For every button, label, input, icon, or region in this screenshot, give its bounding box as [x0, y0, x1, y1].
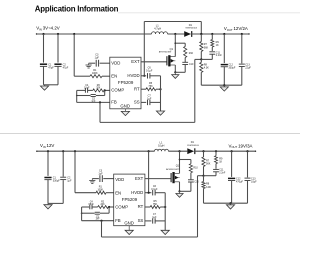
- svg-text:1µF: 1µF: [152, 216, 157, 219]
- svg-text:HVDD: HVDD: [131, 190, 143, 195]
- wire VIN rail left segment (top): [36, 33, 152, 34]
- wire input caps join (bottom): [48, 202, 63, 204]
- svg-text:47µF: 47µF: [63, 66, 69, 69]
- svg-text:75K: 75K: [153, 203, 158, 206]
- svg-text:100K: 100K: [92, 72, 98, 75]
- svg-text:SVM7045LB: SVM7045LB: [187, 145, 199, 147]
- svg-text:AP09962GMT: AP09962GMT: [159, 51, 172, 54]
- ground IC GND (bottom): [125, 226, 133, 235]
- inductor L1 (top): [152, 32, 168, 34]
- capacitor C4 (top comp): [85, 88, 92, 93]
- transistor Q1 label (bottom): [166, 165, 180, 171]
- svg-text:3.9K: 3.9K: [206, 186, 211, 189]
- svg-text:FB: FB: [111, 100, 117, 105]
- svg-text:SVM7045LB: SVM7045LB: [185, 28, 197, 30]
- wire right ground bus (bottom): [164, 193, 166, 231]
- wire SS (top): [141, 101, 146, 103]
- svg-text:RT: RT: [134, 86, 140, 91]
- svg-text:470µF: 470µF: [236, 181, 243, 184]
- capacitor C10 label (bottom): [194, 182, 199, 184]
- resistor R9 feedforward (bottom): [215, 150, 218, 169]
- node VOUT 19V/3A label (bottom): [229, 143, 253, 149]
- capacitor C13 output (top): [239, 33, 245, 85]
- pin HVDD label (bottom): [131, 190, 143, 195]
- ground C3 earth symbol (top): [86, 63, 92, 68]
- node VOUT 12V/2A label (top): [224, 26, 248, 32]
- wire COMP line (top): [77, 89, 85, 91]
- svg-text:75K: 75K: [148, 85, 153, 88]
- capacitor C12 label 330uF (top): [228, 64, 235, 70]
- svg-text:COMP: COMP: [111, 88, 124, 93]
- svg-text:RT: RT: [138, 204, 144, 209]
- resistor R7 label 56K (bottom): [206, 159, 211, 165]
- wire VOUT rail (top): [191, 33, 250, 34]
- resistor R1 label 100K (top): [92, 69, 98, 75]
- resistor R10 snubber (bottom): [189, 164, 192, 180]
- svg-text:FP5209: FP5209: [122, 197, 138, 202]
- svg-text:0.1µF: 0.1µF: [151, 188, 158, 191]
- ground input caps (bottom): [44, 203, 52, 209]
- wire FB feedback route (bottom): [102, 176, 204, 237]
- wire EXT to gate (bottom): [145, 178, 171, 180]
- resistor R1 (top EN): [90, 75, 110, 78]
- resistor R2 comp (bottom): [98, 206, 114, 209]
- ground right bus (top): [156, 111, 164, 115]
- pin GND label (top): [120, 104, 130, 109]
- capacitor C7 label 1uF (bottom): [152, 213, 157, 219]
- capacitor C5 (top comp): [91, 95, 96, 97]
- ground IC GND pin (top): [121, 109, 129, 116]
- pin RT label (top): [134, 86, 140, 91]
- capacitor C3 VDD bypass (bottom): [92, 175, 113, 182]
- wire HVDD feed from VIN rail (bottom): [148, 150, 150, 194]
- ground output (bottom): [226, 203, 234, 209]
- svg-text:EN: EN: [115, 190, 121, 195]
- capacitor C6 label 0.1uF (top): [146, 67, 153, 73]
- diode D1 label (top): [185, 24, 197, 30]
- capacitor C11 label 2.2nF (bottom): [219, 170, 226, 175]
- faint header rule: [118, 12, 300, 14]
- transistor Q1 MOSFET (bottom): [171, 172, 179, 183]
- svg-text:2.2nF: 2.2nF: [216, 55, 223, 57]
- pin GND label (bottom): [124, 221, 134, 226]
- wire HVDD (bottom): [145, 192, 152, 194]
- svg-text:FB: FB: [115, 218, 121, 223]
- ground C3 earth (bottom): [89, 179, 95, 184]
- svg-text:56K: 56K: [206, 163, 211, 166]
- svg-text:Q1: Q1: [170, 48, 174, 51]
- resistor R1 label 100K (bottom): [97, 186, 103, 192]
- wire EN branch from VIN rail (top): [73, 33, 90, 76]
- svg-text:1µF: 1µF: [147, 97, 152, 100]
- wire Q1 drain (top): [174, 33, 176, 57]
- capacitor C10 snubber (top): [182, 62, 188, 72]
- wire FB line (bottom): [82, 220, 114, 222]
- pin EN label (bottom): [115, 190, 121, 195]
- svg-text:4.3K: 4.3K: [204, 67, 209, 70]
- svg-text:330µF: 330µF: [53, 180, 60, 183]
- separator rule: [0, 132, 300, 134]
- inductor L1 label 10uH (bottom): [158, 141, 164, 148]
- svg-text:EXT: EXT: [131, 59, 140, 64]
- capacitor C2 (top input electrolytic): [54, 33, 61, 85]
- svg-text:GND: GND: [120, 104, 130, 109]
- wire input caps ground join (top): [44, 84, 59, 86]
- svg-text:1µF: 1µF: [98, 173, 103, 176]
- capacitor C4 comp (bottom): [90, 205, 98, 210]
- resistor R2 label 20K (bottom): [101, 202, 106, 206]
- resistor R8 divider lower (bottom): [202, 176, 205, 204]
- wire snubber return (top): [175, 71, 185, 73]
- svg-text:1K: 1K: [216, 44, 219, 47]
- resistor R5 label 75K (top): [148, 82, 153, 88]
- capacitor C4 label (bottom): [89, 202, 95, 206]
- resistor R1 EN (bottom): [96, 191, 114, 194]
- node VIN (top circuit) label: [36, 26, 60, 32]
- wire switch rail to diode (bottom): [168, 150, 187, 152]
- svg-text:R10: R10: [189, 53, 194, 55]
- capacitor C4 label (top): [84, 85, 90, 89]
- page title: [35, 4, 119, 13]
- resistor R6 label 20K (top): [96, 85, 101, 89]
- pin FB label (top): [111, 100, 117, 105]
- resistor R7 divider upper (bottom): [202, 150, 205, 177]
- svg-text:10nF: 10nF: [84, 87, 90, 89]
- svg-text:1K: 1K: [219, 161, 222, 164]
- svg-text:SS: SS: [138, 218, 144, 223]
- wire snubber stub (top): [174, 42, 185, 46]
- transistor Q1 label (top): [159, 48, 174, 54]
- svg-text:C11: C11: [216, 52, 221, 54]
- capacitor C5 label 1nF (bottom): [95, 216, 100, 220]
- svg-text:FP5209: FP5209: [118, 80, 134, 85]
- wire switch rail to diode (top): [168, 33, 185, 35]
- resistor R9 feedforward (top): [211, 33, 214, 51]
- svg-text:AP09962GMT: AP09962GMT: [166, 168, 179, 171]
- svg-text:VDD: VDD: [111, 60, 120, 65]
- wire Q1 source (top): [174, 65, 176, 73]
- svg-text:68nF: 68nF: [89, 204, 95, 206]
- svg-text:4.7µH: 4.7µH: [154, 27, 161, 31]
- svg-text:C11: C11: [219, 170, 224, 172]
- capacitor C2 label 1uF (bottom): [67, 177, 72, 183]
- resistor R6 (top comp): [93, 89, 110, 92]
- wire RT (bottom): [145, 206, 150, 208]
- capacitor C5 comp (bottom): [95, 212, 100, 214]
- capacitor C1 input (bottom): [44, 150, 51, 203]
- IC name label FP5209 (bottom): [122, 197, 138, 202]
- resistor R8 label 4.3K (top): [204, 63, 209, 69]
- svg-text:COMP: COMP: [115, 204, 128, 209]
- svg-text:SS: SS: [134, 99, 140, 104]
- capacitor C2 input (bottom): [60, 150, 66, 203]
- wire HVDD (top): [141, 75, 146, 77]
- wire Q1 drain (bottom): [178, 150, 180, 173]
- pin EXT label (top): [131, 59, 140, 64]
- svg-text:1µF: 1µF: [95, 56, 100, 59]
- capacitor C6 HVDD (top): [148, 73, 161, 78]
- wire comp left vertical (bottom): [81, 207, 83, 221]
- pin SS label (bottom): [138, 218, 144, 223]
- capacitor C6 label 0.1uF (bottom): [151, 185, 158, 191]
- svg-text:C10: C10: [194, 182, 199, 184]
- resistor R5 RT (top): [146, 88, 162, 91]
- resistor R8 label 3.9K (bottom): [206, 183, 211, 189]
- resistor R5 RT (bottom): [150, 206, 166, 209]
- ground output (top): [220, 85, 228, 91]
- svg-text:VDD: VDD: [115, 177, 124, 182]
- svg-text:56K: 56K: [204, 46, 209, 49]
- svg-text:EXT: EXT: [135, 176, 144, 181]
- capacitor C7 SS (top): [148, 100, 161, 105]
- wire RT (top): [141, 88, 146, 90]
- svg-text:100K: 100K: [97, 189, 103, 192]
- svg-text:330µF: 330µF: [228, 67, 235, 70]
- resistor R7 (top divider upper): [200, 33, 203, 61]
- inductor L1 value label 4.7uH (top): [154, 24, 161, 31]
- capacitor C10 snubber (bottom): [188, 180, 194, 192]
- resistor R9 label 1K (top): [216, 41, 220, 47]
- resistor R10 label (top): [189, 53, 194, 55]
- svg-text:GND: GND: [124, 221, 134, 226]
- wire FB feedback route (top): [100, 59, 201, 122]
- svg-text:1µF: 1µF: [67, 180, 72, 183]
- diode D1 (bottom): [187, 148, 195, 154]
- wire SS (bottom): [145, 220, 152, 222]
- wire output ground (top): [201, 84, 242, 86]
- pin RT label (bottom): [138, 204, 144, 209]
- resistor R10 snubber (top): [184, 47, 187, 63]
- capacitor C12 output (bottom): [228, 150, 235, 203]
- svg-text:10µF: 10µF: [251, 181, 257, 184]
- capacitor C1 (top input electrolytic): [40, 33, 47, 85]
- inductor L1 (bottom): [155, 149, 169, 151]
- capacitor C10 label (top): [189, 64, 194, 66]
- capacitor C1 label 330uF (bottom): [53, 177, 60, 183]
- svg-text:20K: 20K: [101, 204, 106, 206]
- capacitor C7 label 1uF (top): [147, 94, 152, 100]
- resistor R7 label 56K (top): [204, 43, 209, 49]
- ground input caps (top): [40, 85, 48, 90]
- svg-text:HVDD: HVDD: [127, 73, 139, 78]
- op-amp U1 FP5209 IC box (bottom): [114, 174, 145, 226]
- wire comp middle line (bottom): [81, 207, 109, 214]
- pin EXT label (bottom): [135, 176, 144, 181]
- capacitor C3 label 1uF (top): [95, 53, 100, 59]
- wire VOUT rail (bottom): [194, 151, 256, 152]
- capacitor C12 label 470uF (bottom): [236, 177, 243, 183]
- capacitor C11 (top): [201, 52, 215, 60]
- capacitor C13 label 22uF (top): [245, 64, 251, 70]
- wire snubber stub (bottom): [179, 159, 191, 164]
- capacitor C13 output (bottom): [245, 150, 251, 203]
- svg-text:20K: 20K: [96, 87, 101, 89]
- capacitor C1 label 47uF (top): [48, 63, 54, 69]
- pin VDD label (bottom): [115, 177, 124, 182]
- capacitor C3 label 1uF (bottom): [98, 170, 103, 176]
- resistor R5 label 75K (bottom): [153, 200, 158, 206]
- wire comp left vertical (top): [76, 90, 78, 102]
- wire COMP line (bottom): [82, 206, 90, 208]
- pin VDD label (top): [111, 60, 120, 65]
- ground Q1 source (bottom): [176, 191, 183, 197]
- wire FB line (top): [77, 101, 110, 103]
- wire output ground (bottom): [204, 202, 248, 204]
- svg-text:0.1µF: 0.1µF: [146, 70, 153, 73]
- capacitor C6 HVDD (bottom): [153, 190, 166, 195]
- resistor R8 (top divider lower): [200, 59, 203, 85]
- wire Q1 source (bottom): [178, 182, 180, 193]
- IC U1 name label FP5209 (top): [118, 80, 134, 85]
- svg-text:22µF: 22µF: [245, 67, 251, 70]
- diode D1 label (bottom): [187, 141, 199, 147]
- pin SS label (top): [134, 99, 140, 104]
- wire comp middle line (top): [76, 90, 105, 96]
- resistor R9 label 1K (bottom): [219, 157, 223, 163]
- svg-text:2.2nF: 2.2nF: [219, 172, 226, 174]
- pin FB label (bottom): [115, 218, 121, 223]
- ground Q1 source (top): [172, 72, 179, 78]
- capacitor C13 label 10uF (bottom): [251, 177, 257, 183]
- svg-text:10µH: 10µH: [158, 144, 164, 148]
- ground right bus (bottom): [161, 230, 169, 234]
- wire VIN rail (bottom): [36, 151, 154, 152]
- capacitor C12 output (top): [221, 33, 228, 85]
- wire HVDD-to-VOUT bridge over L1 and D1 (top): [143, 22, 202, 77]
- svg-text:VIN 12V: VIN 12V: [40, 143, 54, 149]
- node VIN 12V label (bottom): [40, 143, 54, 149]
- pin COMP label (bottom): [115, 204, 128, 209]
- svg-text:Application Information: Application Information: [35, 4, 119, 13]
- pin COMP label (top): [111, 88, 124, 93]
- wire EN branch (bottom): [74, 150, 96, 193]
- svg-text:C10: C10: [189, 64, 194, 66]
- wire EXT to gate (top): [141, 61, 167, 63]
- capacitor C5 label 1nF (top): [91, 99, 96, 103]
- transistor Q1 MOSFET (top): [167, 55, 175, 66]
- capacitor C3 VDD bypass (top): [89, 60, 110, 67]
- svg-text:EN: EN: [111, 73, 117, 78]
- capacitor C7 SS (bottom): [153, 218, 166, 223]
- wire right pins ground bus (top): [160, 76, 162, 111]
- svg-text:47µF: 47µF: [48, 66, 54, 69]
- op-amp U1 FP5209 IC box (top): [110, 57, 141, 109]
- diode D1 (top): [184, 31, 192, 37]
- capacitor C11 label 2.2nF (top): [216, 52, 223, 57]
- pin HVDD label (top): [127, 73, 139, 78]
- capacitor C11 (bottom): [204, 169, 219, 175]
- svg-text:R10: R10: [193, 167, 198, 169]
- resistor R10 label (bottom): [193, 167, 198, 169]
- capacitor C2 label 47uF (top): [63, 63, 69, 69]
- wire snubber return (bottom): [180, 190, 191, 192]
- pin EN label (top): [111, 73, 117, 78]
